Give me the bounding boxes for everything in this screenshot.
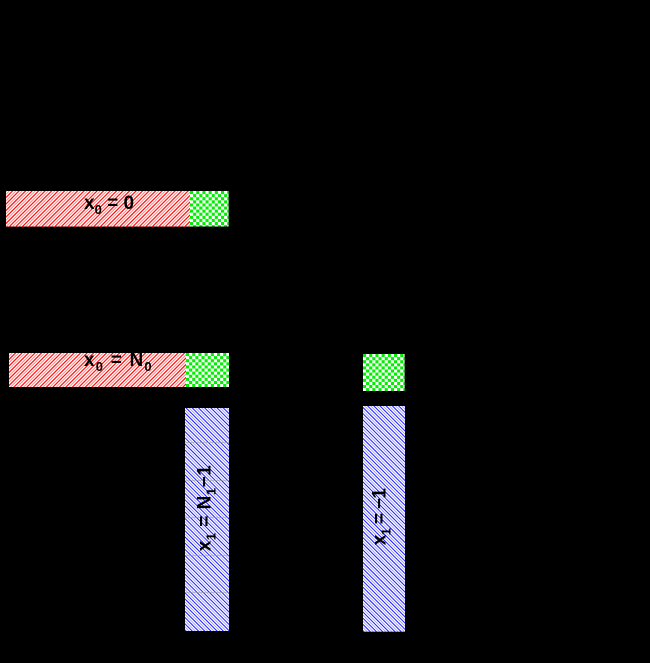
bar x0=0 red hatched [6,191,190,227]
bar x0=N0 green ghost cells [186,353,230,388]
gridline y=480 [185,480,229,481]
gridline y=592 [185,592,229,593]
gridline y=555 [185,555,229,556]
label x0 = N0 [84,351,153,370]
bar x0=N0 red hatched [9,353,186,388]
gridline y=442 [185,442,229,443]
label x1 = N1-1 rotated [195,464,214,551]
bar x0=0 green ghost cells [190,191,229,227]
label x0 = 0 [84,194,134,213]
green ghost cell square right [363,354,405,391]
label x1 = -1 rotated [370,488,389,545]
gridline y=517 [185,517,229,518]
bar x1=N1-1 blue hatched [185,408,229,631]
bar x1=-1 blue hatched [363,406,405,632]
